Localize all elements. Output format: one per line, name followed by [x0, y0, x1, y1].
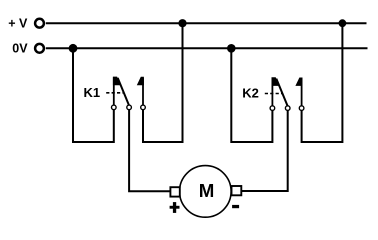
- wire: +V junction D down and across to K2 right contact: [302, 23, 343, 142]
- node D dot on +V rail: [339, 19, 347, 27]
- K1 right contact arrowhead: [137, 77, 144, 85]
- node B dot on +V rail: [178, 19, 186, 27]
- K2 lever (closed to left contact): [276, 79, 287, 107]
- +V rail: [46, 22, 367, 24]
- K2 left fixed contact line: [271, 78, 273, 106]
- K2 actuation dashed link: [265, 93, 282, 95]
- K1 lever (closed to left contact): [118, 78, 129, 106]
- wire: K2 common down to motor - terminal: [241, 110, 288, 191]
- wire: 0V junction A down and across to K1 left contact: [73, 48, 114, 142]
- relay contact K2 (changeover): [265, 77, 304, 110]
- K2 right contact arrowhead: [295, 78, 302, 86]
- motor terminal square +: [170, 187, 179, 196]
- K1 pin circle common: [127, 105, 132, 110]
- K2 right fixed contact line: [301, 79, 303, 106]
- motor M1 body: [180, 166, 232, 218]
- K2 pin circle common: [285, 106, 290, 111]
- svg-text:0V: 0V: [12, 41, 28, 55]
- K1 actuation dashed link: [106, 92, 123, 94]
- K1 pin circle right: [141, 105, 146, 110]
- K2 pin circle right: [299, 106, 304, 111]
- svg-text:K2: K2: [242, 86, 259, 101]
- K1 left fixed contact line: [113, 77, 115, 105]
- relay contact K1 (changeover): [106, 77, 145, 110]
- wire: +V junction B down and across to K1 right contact: [143, 23, 183, 142]
- label -: [232, 205, 239, 208]
- K1 left contact arrowhead: [113, 77, 121, 86]
- node A dot on 0V rail: [69, 44, 78, 53]
- svg-text:K1: K1: [84, 85, 101, 100]
- 0V rail: [46, 47, 368, 49]
- wire: 0V junction C down and across to K2 left contact: [231, 48, 272, 142]
- terminal +V: [35, 19, 44, 28]
- K1 pin circle left: [112, 105, 117, 110]
- svg-text:+ V: + V: [8, 17, 28, 31]
- wire: K1 common down to motor + terminal: [129, 110, 171, 192]
- K2 left contact arrowhead: [272, 77, 280, 86]
- K2 pin circle left: [270, 106, 275, 111]
- terminal 0V: [35, 44, 44, 53]
- motor terminal square -: [232, 186, 242, 195]
- K1 right fixed contact line: [142, 78, 144, 105]
- label +: [170, 202, 180, 213]
- node C dot on 0V rail: [227, 44, 236, 53]
- svg-text:M: M: [199, 180, 215, 201]
